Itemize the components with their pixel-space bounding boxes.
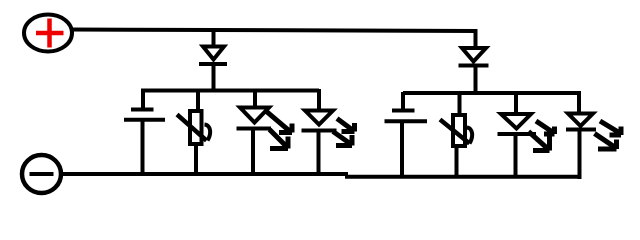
wire capacitor C2 to bottom rail — [400, 122, 404, 178]
capacitor C1 — [124, 89, 165, 120]
wire top bus corner down to diode D2 — [474, 29, 478, 47]
LED D5 — [498, 114, 555, 151]
wire LED D4 to bottom rail — [317, 129, 321, 175]
LED D6 — [566, 114, 621, 150]
wire varistor RV2 to bottom rail — [455, 146, 459, 178]
wire left group top bus — [141, 89, 319, 93]
wire capacitor C1 to bottom rail — [141, 120, 145, 175]
wire right bus to LED D6 — [577, 92, 581, 112]
wire right group top bus — [403, 91, 581, 95]
wire LED D5 to bottom rail — [514, 133, 518, 178]
wire LED D6 to bottom rail — [578, 128, 582, 179]
LED D3 — [237, 108, 293, 149]
wire right bus to LED D5 — [514, 92, 518, 112]
wire LED D3 to bottom rail — [251, 127, 255, 175]
wire left bus to LED D3 — [253, 89, 257, 106]
negative supply terminal — [22, 155, 61, 193]
wire top bus from + terminal to diode D2 — [70, 30, 476, 32]
node A junction top wire to diode D1 — [212, 29, 216, 46]
wire bottom rail left segment — [62, 172, 348, 176]
diode D1 — [199, 47, 227, 65]
varistor RV1 — [177, 111, 210, 144]
capacitor C2 — [385, 92, 428, 121]
wire left bus to varistor RV1 — [196, 89, 200, 111]
positive supply terminal — [24, 15, 72, 52]
diode D2 — [459, 48, 489, 66]
wire diode D2 cathode to right bus — [474, 64, 478, 94]
varistor RV2 — [440, 115, 472, 146]
LED D4 — [302, 111, 355, 146]
wire bottom rail right segment — [345, 175, 581, 179]
wire diode D1 cathode to left bus — [212, 63, 216, 91]
wire varistor RV1 to bottom rail — [194, 144, 198, 175]
wire right bus to varistor RV2 — [458, 92, 462, 115]
wire left bus to LED D4 — [317, 89, 321, 110]
